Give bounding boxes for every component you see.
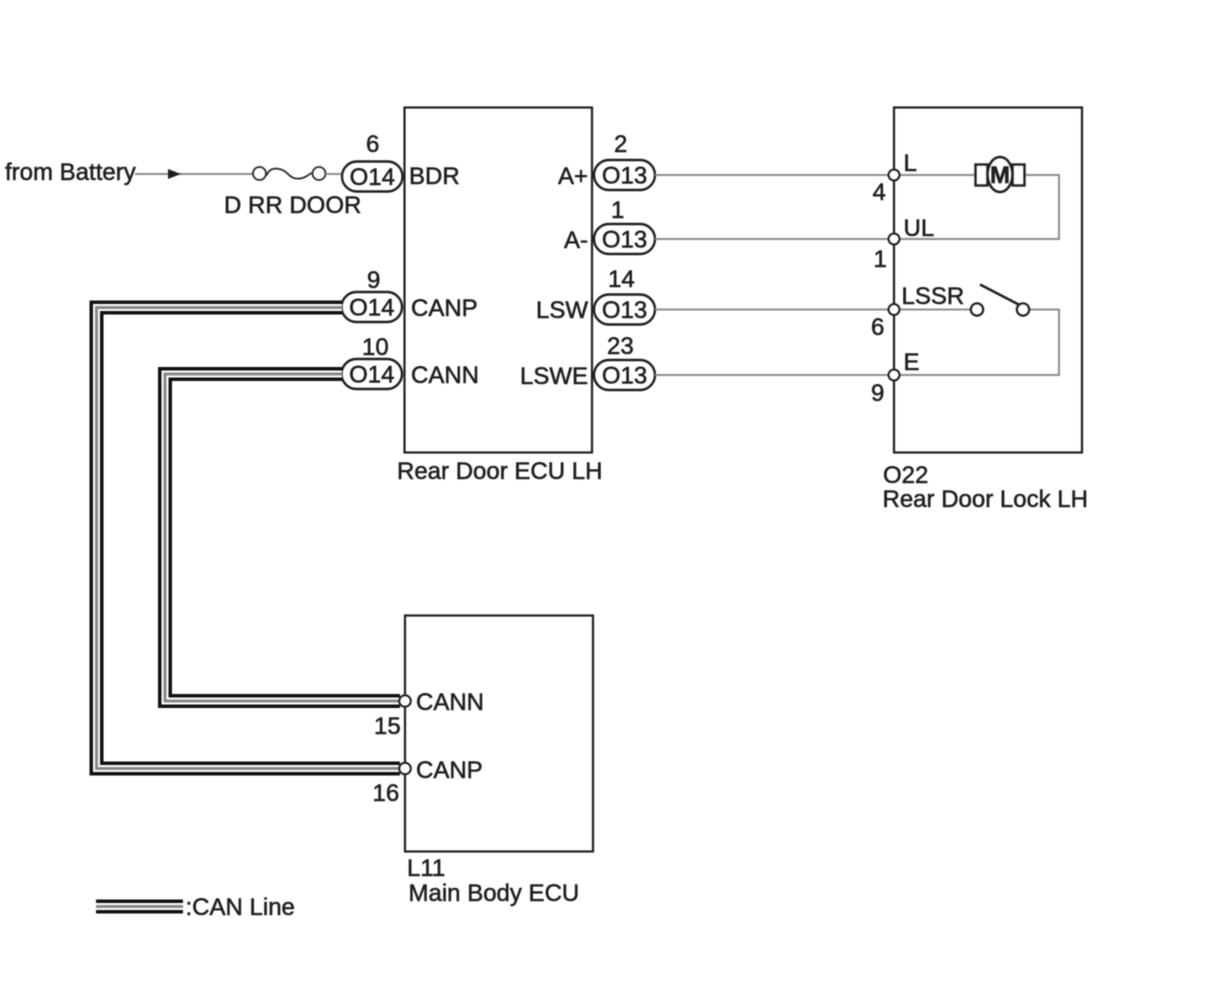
svg-text:23: 23 bbox=[607, 333, 634, 360]
svg-text:1: 1 bbox=[874, 246, 887, 273]
svg-text:10: 10 bbox=[362, 334, 389, 361]
svg-text:2: 2 bbox=[614, 131, 627, 158]
connector O13 pin 2 (A+) bbox=[594, 160, 655, 190]
wire L to motor bbox=[894, 174, 976, 176]
wire motor to UL bbox=[894, 175, 1059, 239]
svg-text:1: 1 bbox=[611, 197, 624, 224]
svg-text:O22: O22 bbox=[883, 462, 928, 489]
svg-text:O14: O14 bbox=[350, 164, 395, 191]
svg-text:O13: O13 bbox=[602, 363, 647, 390]
svg-text:Rear Door Lock LH: Rear Door Lock LH bbox=[883, 486, 1088, 513]
svg-text:LSWE: LSWE bbox=[520, 363, 588, 390]
ECU box L11 Main Body ECU bbox=[405, 616, 593, 852]
wire LSW to LSSR bbox=[655, 309, 894, 311]
svg-text:D RR DOOR: D RR DOOR bbox=[224, 192, 361, 219]
wire LSSR to switch bbox=[894, 309, 971, 311]
connector O14 pin 10 (CANN) bbox=[342, 359, 403, 389]
svg-text:Rear Door ECU LH: Rear Door ECU LH bbox=[397, 458, 602, 485]
svg-text:6: 6 bbox=[366, 131, 379, 158]
svg-text:9: 9 bbox=[367, 267, 380, 294]
svg-text:A-: A- bbox=[564, 227, 588, 254]
wire A+ to L bbox=[655, 174, 894, 176]
svg-text:O13: O13 bbox=[602, 163, 647, 190]
node terminal 6 (LSSR) bbox=[871, 283, 964, 341]
connector O14 pin 9 (CANP) bbox=[342, 292, 403, 322]
node terminal 4 (L) bbox=[873, 150, 917, 206]
svg-text:Main Body ECU: Main Body ECU bbox=[409, 880, 580, 907]
wire LSWE to E bbox=[655, 374, 894, 376]
connector O14 pin 6 (BDR) bbox=[342, 162, 403, 192]
lock box O22 Rear Door Lock LH bbox=[894, 108, 1082, 453]
svg-text:CANN: CANN bbox=[416, 689, 484, 716]
node terminal 9 (E) bbox=[871, 349, 920, 407]
svg-text:16: 16 bbox=[373, 780, 400, 807]
svg-text:BDR: BDR bbox=[409, 163, 460, 190]
svg-text:9: 9 bbox=[871, 380, 884, 407]
svg-text:O13: O13 bbox=[602, 227, 647, 254]
svg-text:L11: L11 bbox=[407, 855, 445, 882]
node terminal 1 (UL) bbox=[874, 215, 935, 273]
connector O13 pin 1 (A-) bbox=[594, 224, 655, 254]
svg-text::CAN Line: :CAN Line bbox=[186, 894, 295, 921]
node terminal 16 (CANP) bbox=[373, 757, 483, 807]
node terminal 15 (CANN) bbox=[374, 689, 484, 740]
connector O13 pin 23 (LSWE) bbox=[594, 360, 655, 390]
motor M door lock motor bbox=[976, 157, 1025, 192]
svg-text:14: 14 bbox=[608, 266, 635, 293]
wire switch to E bbox=[894, 310, 1059, 376]
svg-text:E: E bbox=[904, 349, 920, 376]
svg-text:from Battery: from Battery bbox=[5, 159, 136, 186]
fuse D RR DOOR bbox=[224, 167, 361, 219]
switch LSSR door lock position switch bbox=[971, 285, 1029, 316]
ECU box U1 Rear Door ECU LH bbox=[405, 108, 593, 453]
svg-text:O14: O14 bbox=[349, 362, 394, 389]
wire fuse to connector O14 pin 6 bbox=[326, 173, 343, 175]
svg-text:O14: O14 bbox=[349, 295, 394, 322]
svg-text:CANP: CANP bbox=[411, 295, 478, 322]
legend CAN Line symbol bbox=[96, 894, 295, 921]
wire from battery to fuse bbox=[135, 169, 253, 179]
svg-text:4: 4 bbox=[873, 179, 886, 206]
svg-text:A+: A+ bbox=[558, 163, 588, 190]
svg-text:O13: O13 bbox=[602, 297, 647, 324]
svg-text:M: M bbox=[990, 162, 1010, 189]
wire A- to UL bbox=[655, 238, 894, 240]
CAN line wire CANP (pin 9 to pin 16) bbox=[97, 308, 401, 769]
CAN line wire CANN (pin 10 to pin 15) bbox=[165, 374, 400, 701]
svg-text:L: L bbox=[904, 150, 917, 177]
svg-text:15: 15 bbox=[374, 713, 401, 740]
svg-text:UL: UL bbox=[904, 215, 935, 242]
svg-text:LSW: LSW bbox=[536, 297, 588, 324]
svg-text:CANN: CANN bbox=[411, 362, 479, 389]
svg-text:6: 6 bbox=[871, 314, 884, 341]
svg-text:CANP: CANP bbox=[416, 757, 483, 784]
svg-text:LSSR: LSSR bbox=[902, 283, 965, 310]
connector O13 pin 14 (LSW) bbox=[594, 295, 655, 325]
